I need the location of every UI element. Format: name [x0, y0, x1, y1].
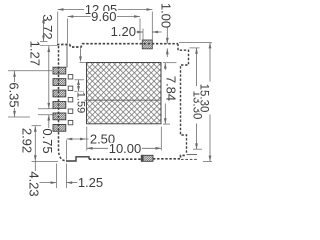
svg-text:9.60: 9.60: [91, 9, 116, 24]
svg-text:0.75: 0.75: [40, 128, 55, 153]
svg-text:7.84: 7.84: [164, 76, 179, 101]
svg-text:2.92: 2.92: [20, 128, 35, 153]
svg-text:4.23: 4.23: [27, 171, 42, 196]
svg-text:6.35: 6.35: [7, 82, 22, 107]
svg-text:15.30: 15.30: [198, 84, 210, 113]
svg-text:1.20: 1.20: [111, 24, 136, 39]
svg-text:1.25: 1.25: [78, 175, 103, 190]
svg-text:10.00: 10.00: [109, 141, 142, 156]
svg-text:1.00: 1.00: [158, 3, 173, 28]
svg-text:1.27: 1.27: [28, 41, 43, 66]
svg-text:1.59: 1.59: [75, 92, 87, 113]
